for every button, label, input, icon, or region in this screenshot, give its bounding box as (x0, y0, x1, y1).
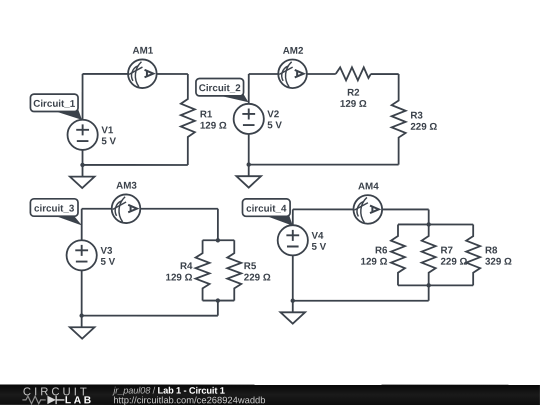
svg-text:229 Ω: 229 Ω (244, 272, 271, 283)
callout Circuit_2 (196, 78, 249, 102)
svg-text:229 Ω: 229 Ω (440, 257, 467, 268)
logo CIRCUIT text (23, 386, 90, 398)
wire left vertical circuit2 (248, 74, 250, 119)
node junction circuit1 (80, 163, 84, 167)
resistor R7 (422, 224, 436, 285)
label R1 value (200, 109, 227, 131)
wire bottom rail and ground stem circuit4 (293, 240, 429, 312)
voltage source V4 (278, 225, 308, 255)
svg-text:http://circuitlab.com/ce268924: http://circuitlab.com/ce268924waddb (113, 394, 265, 405)
label V2 value (267, 109, 282, 131)
svg-text:circuit_4: circuit_4 (246, 204, 287, 215)
label V4 value (311, 231, 326, 253)
svg-text:AM4: AM4 (358, 181, 379, 192)
svg-text:129 Ω: 129 Ω (200, 121, 227, 132)
resistor R4 (196, 240, 210, 300)
node junction circuit3 top (216, 238, 220, 242)
credit line (111, 386, 224, 396)
wire bottom rail and ground stem circuit1 (83, 135, 188, 177)
logo LAB text (65, 395, 94, 405)
voltage source V1 (68, 120, 98, 150)
svg-text:LAB: LAB (65, 395, 94, 405)
label R4 value (166, 261, 193, 283)
label AM2 (283, 46, 304, 57)
label R8 value (485, 245, 512, 267)
svg-text:V4: V4 (311, 231, 324, 242)
label AM3 (116, 181, 137, 192)
svg-text:129 Ω: 129 Ω (340, 99, 367, 110)
svg-text:V3: V3 (100, 246, 113, 257)
label V1 value (101, 125, 116, 147)
voltage source V2 (234, 104, 264, 134)
resistor R1 (181, 74, 195, 165)
voltage source V3 (67, 240, 97, 270)
node junction circuit4 bottom (426, 283, 430, 287)
resistor R8 (466, 224, 480, 285)
ammeter AM4 (353, 195, 382, 224)
svg-text:R2: R2 (347, 88, 360, 99)
svg-text:R8: R8 (485, 245, 498, 256)
ground circuit2 (236, 176, 261, 187)
ground circuit1 (70, 177, 95, 188)
node junction circuit4 top (426, 222, 430, 226)
svg-text:5 V: 5 V (267, 120, 282, 131)
resistor R5 (227, 240, 241, 300)
node junction circuit3 bottom (216, 298, 220, 302)
svg-text:129 Ω: 129 Ω (166, 272, 193, 283)
svg-text:R7: R7 (440, 245, 453, 256)
label R2 value (340, 88, 367, 110)
wire top rail circuit4 (293, 208, 429, 210)
svg-text:V1: V1 (101, 125, 114, 136)
svg-text:129 Ω: 129 Ω (361, 257, 388, 268)
svg-text:5 V: 5 V (311, 242, 326, 253)
wire top rail circuit3 (82, 208, 218, 210)
svg-text:circuit_3: circuit_3 (34, 204, 75, 215)
node junction circuit2 (247, 162, 251, 166)
svg-text:R5: R5 (244, 261, 257, 272)
wire bottom rail and ground stem circuit2 (249, 119, 399, 176)
wire left vertical circuit1 (82, 74, 84, 135)
logo resistor zigzag (22, 396, 45, 404)
label R3 value (410, 110, 437, 132)
svg-text:5 V: 5 V (100, 257, 115, 268)
ammeter AM2 (278, 60, 307, 89)
wire bottom rail and ground stem circuit3 (82, 255, 218, 327)
wire top rail circuit2 (249, 73, 399, 75)
label R5 value (244, 261, 271, 283)
callout Circuit_1 (30, 94, 82, 120)
svg-text:Circuit_1: Circuit_1 (33, 99, 75, 110)
svg-text:R3: R3 (410, 110, 423, 121)
node junction circuit4 left (291, 299, 295, 303)
ammeter AM3 (112, 194, 141, 223)
node junction circuit3 left (79, 313, 83, 317)
wire left vertical circuit3 (81, 209, 83, 255)
ground circuit3 (70, 327, 95, 338)
svg-text:AM3: AM3 (116, 181, 137, 192)
svg-text:AM1: AM1 (133, 46, 154, 57)
resistor R3 (392, 74, 406, 165)
svg-text:Circuit_2: Circuit_2 (199, 83, 241, 94)
url line (113, 394, 265, 405)
wire parallel branch stems and bars circuit4 (398, 209, 473, 300)
svg-text:AM2: AM2 (283, 46, 304, 57)
label AM1 (133, 46, 154, 57)
wire left vertical circuit4 (292, 209, 294, 240)
svg-text:R4: R4 (180, 261, 193, 272)
resistor R6 (391, 224, 405, 285)
label R7 value (440, 245, 467, 267)
svg-text:329 Ω: 329 Ω (485, 257, 512, 268)
ground circuit4 (280, 312, 305, 323)
callout circuit_3 (30, 199, 82, 226)
svg-text:R6: R6 (375, 245, 388, 256)
svg-text:V2: V2 (267, 109, 280, 120)
logo diode (47, 396, 64, 404)
svg-text:5 V: 5 V (101, 136, 116, 147)
footer bar (0, 384, 540, 405)
label R6 value (361, 245, 388, 267)
wire top rail circuit1 (83, 73, 188, 75)
resistor R2 (336, 67, 371, 80)
wire parallel branch stems and bars circuit3 (203, 209, 235, 316)
svg-text:R1: R1 (200, 109, 213, 120)
svg-text:229 Ω: 229 Ω (410, 122, 437, 133)
ammeter AM1 (128, 59, 157, 88)
label V3 value (100, 246, 115, 268)
label AM4 (358, 181, 379, 192)
callout circuit_4 (242, 199, 292, 226)
